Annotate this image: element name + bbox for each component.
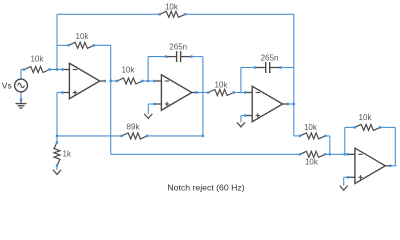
svg-text:10k: 10k	[214, 80, 228, 89]
svg-text:10k: 10k	[30, 55, 44, 64]
svg-text:265n: 265n	[261, 53, 279, 62]
svg-text:10k: 10k	[304, 123, 318, 132]
svg-text:10k: 10k	[165, 3, 179, 12]
svg-text:10k: 10k	[359, 113, 373, 122]
svg-text:10k: 10k	[76, 32, 90, 41]
svg-text:10k: 10k	[121, 65, 135, 74]
svg-text:1k: 1k	[63, 150, 72, 159]
svg-text:89k: 89k	[127, 123, 141, 132]
svg-text:Vs: Vs	[2, 81, 12, 91]
svg-text:Notch reject (60 Hz): Notch reject (60 Hz)	[167, 182, 244, 192]
svg-text:265n: 265n	[169, 42, 187, 51]
svg-text:10k: 10k	[305, 157, 319, 166]
